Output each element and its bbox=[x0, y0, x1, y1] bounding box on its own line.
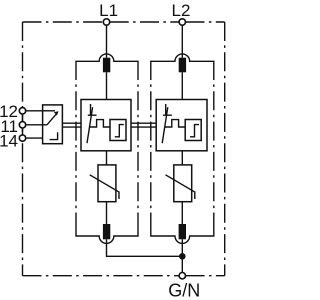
svg-text:G/N: G/N bbox=[168, 281, 200, 300]
trigger pulse line U2 bbox=[165, 120, 185, 127]
enclosure frame left bbox=[22, 22, 24, 276]
svg-text:L1: L1 bbox=[99, 1, 118, 20]
terminal circle L1 bbox=[103, 19, 109, 25]
spark gap box U2 (L2) bbox=[156, 100, 207, 151]
step symbol in monitoring square U2 bbox=[190, 125, 199, 137]
terminal circle G/N bbox=[179, 273, 185, 279]
blade arrowhead bbox=[54, 111, 59, 115]
monitoring square U1 bbox=[110, 120, 126, 141]
wire L2 bottom to G/N terminal bbox=[181, 239, 183, 272]
terminal circle 14 bbox=[19, 135, 25, 141]
svg-text:14: 14 bbox=[0, 132, 18, 151]
trigger pulse line U1 bbox=[90, 120, 110, 127]
varistor RV2 diagonal bbox=[166, 175, 195, 199]
spark gap switch symbol U1 bbox=[87, 104, 97, 143]
mechanical link U1 to U2 bbox=[131, 123, 156, 127]
mechanical link signal box to U1 bbox=[62, 123, 81, 127]
disconnector fuse F2 top (L2) bbox=[179, 58, 186, 73]
module 1 top boundary with crossover arc bbox=[76, 54, 138, 73]
enclosure frame top bbox=[23, 21, 225, 23]
enclosure frame bottom bbox=[23, 275, 225, 277]
changeover blade bbox=[47, 113, 57, 125]
wire terminal 14 bbox=[26, 137, 43, 139]
node L1 lead bbox=[106, 25, 108, 99]
module 2 side dash-dot lines bbox=[151, 73, 214, 222]
varistor RV2 (L2) bbox=[174, 165, 192, 202]
disconnector fuse F1 top (L1) bbox=[103, 58, 110, 73]
varistor RV1 (L1) bbox=[98, 165, 116, 202]
node L2 lead bbox=[181, 25, 183, 99]
varistor RV1 lead bottom bbox=[106, 202, 108, 224]
module 1 side dash-dot lines bbox=[76, 73, 138, 222]
wire terminal 11 bbox=[26, 124, 43, 126]
terminal circle 12 bbox=[19, 108, 25, 114]
svg-text:L2: L2 bbox=[172, 1, 191, 20]
contact 14 hook bbox=[50, 132, 58, 139]
spark gap switch symbol U2 bbox=[162, 104, 172, 143]
module 2 bottom boundary with crossover arc bbox=[151, 222, 214, 244]
varistor RV2 lead bottom bbox=[181, 202, 183, 224]
module 2 top boundary with crossover arc bbox=[151, 54, 214, 73]
terminal circle 11 bbox=[19, 122, 25, 128]
module 1 bottom boundary with crossover arc bbox=[76, 222, 138, 244]
signal contact box K1 bbox=[43, 105, 63, 144]
varistor RV1 diagonal bbox=[90, 175, 119, 199]
wire L1 bottom to ground bus bbox=[107, 239, 183, 256]
spark gap box U1 (L1) bbox=[81, 100, 131, 151]
disconnector fuse F1 bottom (L1) bbox=[103, 224, 110, 239]
varistor RV2 lead top bbox=[181, 151, 183, 165]
step symbol in monitoring square U1 bbox=[115, 125, 124, 137]
left boundary solid joins between terminals bbox=[22, 114, 24, 135]
disconnector fuse F2 bottom (L2) bbox=[179, 224, 186, 239]
enclosure frame right bbox=[224, 22, 226, 276]
terminal circle L2 bbox=[179, 19, 185, 25]
contact 12 line bbox=[43, 110, 55, 112]
monitoring square U2 bbox=[185, 120, 201, 141]
contact 11 line bbox=[43, 124, 47, 126]
junction dot ground bus bbox=[179, 253, 186, 260]
varistor RV1 lead top bbox=[106, 151, 108, 165]
wire terminal 12 bbox=[26, 110, 43, 112]
